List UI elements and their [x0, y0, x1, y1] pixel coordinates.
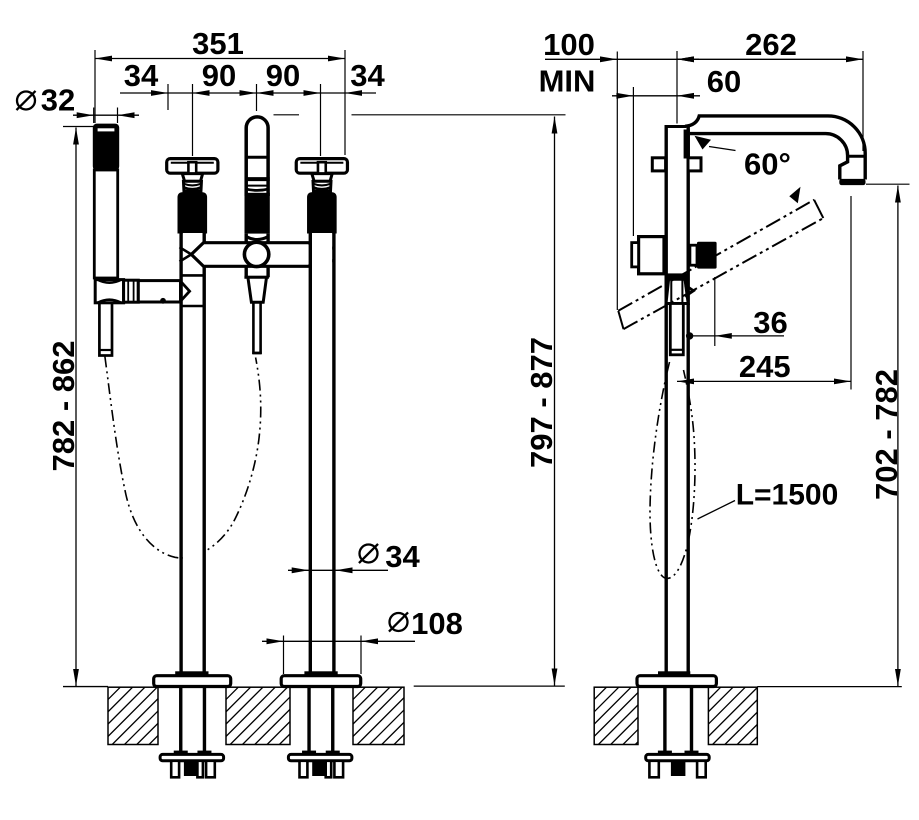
left column base ring [175, 671, 208, 676]
svg-text:34: 34 [350, 58, 385, 93]
handle knurled grip [178, 193, 207, 233]
handshower tube side view [670, 304, 683, 355]
rotation arc arrows and 60 deg label [695, 136, 712, 150]
svg-text:32: 32 [41, 83, 75, 118]
dimension 36 [686, 277, 788, 346]
handle tabs side view [652, 158, 665, 171]
handle front spoke [318, 162, 326, 177]
spout column stadium top [246, 117, 268, 196]
svg-text:351: 351 [192, 26, 244, 61]
dimension 262 [677, 27, 863, 151]
dimension 100 MIN [539, 27, 699, 310]
riser column side view [665, 125, 668, 672]
left base flange [154, 676, 231, 687]
spout arm and elbow [685, 116, 865, 180]
svg-text:90: 90 [202, 58, 236, 93]
bolts and nuts [300, 761, 308, 778]
svg-text:MIN: MIN [539, 64, 596, 99]
diverter knob circle [244, 242, 268, 266]
floor hatching left view block 3 [296, 687, 464, 744]
bolts and nuts [171, 761, 179, 778]
dimension 797 - 877 [274, 115, 566, 686]
holder arm [138, 281, 180, 302]
handshower holder clamp [95, 280, 189, 304]
handle bar [167, 159, 218, 174]
dimension 351 overall width [95, 26, 345, 155]
bolts and nuts [649, 761, 658, 778]
svg-text:90: 90 [266, 58, 300, 93]
holder arm junction lines on column [182, 274, 205, 277]
svg-text:262: 262 [745, 27, 797, 62]
right column base ring [304, 671, 337, 676]
floor hatching side view block 2 [651, 687, 819, 744]
column base ring side view [658, 671, 690, 676]
handshower hose front view (behind column) [105, 357, 261, 558]
dimension chain 34 90 90 34 [120, 58, 385, 156]
svg-text:245: 245 [739, 349, 791, 384]
handshower handle [94, 170, 117, 278]
handle front spoke [188, 162, 196, 177]
wire threaded rods below floor [179, 687, 182, 752]
holder body side view [639, 237, 664, 274]
svg-text:34: 34 [124, 58, 159, 93]
spout nozzle black tip [839, 179, 865, 185]
floor hatching left view block 1 [51, 687, 219, 744]
mounting plate [646, 754, 710, 760]
handle collar rings [183, 181, 201, 191]
mounting plate [288, 754, 352, 760]
left riser column [183, 233, 203, 671]
dimension 245 [677, 196, 851, 390]
dimension diameter 108 flange [262, 606, 463, 674]
spout column black sleeve [245, 193, 270, 234]
holder junction band [665, 273, 689, 279]
svg-text:L=1500: L=1500 [736, 479, 839, 512]
svg-text:60: 60 [707, 64, 741, 99]
handle stem [182, 174, 202, 182]
handle bar [296, 159, 347, 174]
dimension 702 - 782 [866, 184, 910, 686]
spout outlet taper [244, 276, 269, 279]
handshower hose side view [650, 362, 695, 578]
svg-text:797 - 877: 797 - 877 [524, 337, 559, 468]
svg-text:100: 100 [543, 27, 595, 62]
handle knurled grip [308, 193, 337, 233]
floor line side view [757, 686, 902, 688]
holder ring nut [124, 280, 139, 302]
floor hatching left view block 2 [169, 687, 349, 744]
wire threaded rods below floor [307, 687, 310, 752]
handshower head side view [666, 279, 688, 303]
dimension 60 [612, 64, 741, 236]
dimension 782 - 862 height [46, 127, 94, 687]
handshower head [93, 124, 119, 171]
floor line left view [63, 686, 108, 688]
handle collar rings [313, 181, 331, 191]
handle stem [312, 174, 332, 182]
svg-text:108: 108 [411, 606, 463, 641]
dimension diameter 34 column [288, 539, 420, 574]
rotated spout phantom lines 60 deg [618, 200, 814, 311]
base flange side view [637, 676, 716, 687]
svg-text:36: 36 [753, 305, 787, 340]
mounting plate [160, 754, 224, 760]
handshower tail tube [99, 303, 112, 356]
dimension diameter 32 handshower [16, 83, 139, 124]
wire threaded rods below floor [663, 687, 666, 752]
spout outlet tube [252, 302, 255, 354]
right riser column [312, 233, 332, 671]
floor hatching side view block 1 [537, 687, 705, 744]
right base flange [281, 676, 361, 687]
valve crossbody (double arrow) [191, 243, 322, 267]
diverter knob side view [690, 245, 697, 265]
svg-text:60°: 60° [744, 147, 791, 182]
svg-text:34: 34 [385, 539, 420, 574]
column black sleeve side [684, 130, 690, 159]
